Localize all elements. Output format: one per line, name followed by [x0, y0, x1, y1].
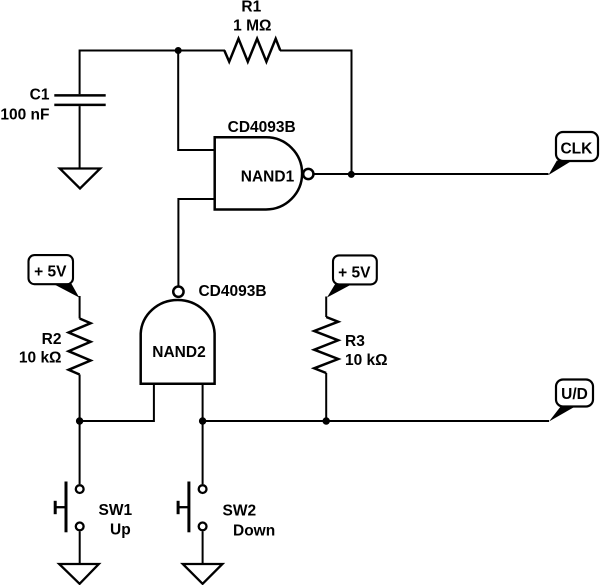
resistor R1 — [224, 39, 280, 62]
power +5V left box — [29, 255, 74, 284]
wire SW2 to ground — [202, 532, 204, 565]
switch SW1 actuator — [55, 482, 66, 533]
svg-text:CD4093B: CD4093B — [228, 119, 296, 136]
capacitor C1 plates — [54, 95, 105, 105]
wire R3 to rail — [325, 373, 327, 421]
switch SW1 contact top — [76, 485, 84, 493]
switch SW2 actuator — [178, 482, 189, 533]
svg-text:SW2: SW2 — [223, 502, 257, 519]
svg-text:100 nF: 100 nF — [0, 107, 49, 124]
svg-text:1 MΩ: 1 MΩ — [233, 18, 271, 35]
ground below C1 — [60, 169, 100, 189]
node junction SW2 rail — [199, 417, 206, 424]
power +5V right box — [333, 255, 377, 284]
svg-text:10 kΩ: 10 kΩ — [345, 352, 388, 369]
gate body NAND2 — [141, 300, 215, 384]
capacitor C1 bottom lead — [79, 106, 81, 169]
flag U/D wedge — [549, 406, 576, 422]
svg-text:+ 5V: + 5V — [34, 264, 67, 281]
switch SW2 contact bottom — [199, 523, 207, 531]
svg-text:CLK: CLK — [560, 141, 593, 158]
svg-text:C1: C1 — [30, 87, 50, 104]
svg-text:NAND1: NAND1 — [241, 168, 295, 185]
wire NAND2 left input — [80, 384, 154, 421]
wire R1 right to corner and down — [280, 51, 352, 175]
node junction top rail — [175, 47, 182, 54]
svg-text:R1: R1 — [241, 0, 261, 16]
svg-text:SW1: SW1 — [99, 502, 133, 519]
wire bottom rail to U/D — [203, 420, 549, 422]
power +5V left wedge — [53, 284, 80, 298]
inverter bubble NAND2 output — [173, 287, 183, 297]
svg-text:10 kΩ: 10 kΩ — [19, 349, 62, 366]
svg-text:R3: R3 — [345, 333, 365, 350]
svg-text:Down: Down — [233, 523, 275, 540]
node junction output feedback — [348, 171, 355, 178]
svg-text:R2: R2 — [42, 331, 62, 348]
flag CLK wedge — [549, 161, 573, 176]
node junction R3 rail — [323, 417, 330, 424]
wire NAND1 bottom input — [178, 199, 214, 286]
wire +5V to R2 — [79, 296, 81, 319]
wire NAND1 top input — [178, 51, 215, 151]
flag U/D box — [556, 380, 593, 407]
svg-text:Up: Up — [110, 522, 131, 539]
resistor R3 — [314, 317, 338, 373]
flag CLK box — [556, 132, 598, 161]
power +5V right wedge — [327, 284, 353, 298]
svg-text:CD4093B: CD4093B — [198, 283, 266, 300]
node junction R2 rail — [76, 417, 83, 424]
ground below SW2 — [183, 564, 223, 584]
capacitor C1 top lead — [79, 50, 81, 95]
inverter bubble NAND1 output — [303, 169, 313, 179]
svg-text:NAND2: NAND2 — [152, 344, 205, 361]
wire +5V to R3 — [325, 297, 327, 318]
wire NAND1 output to CLK — [314, 173, 549, 175]
switch SW2 contact top — [199, 485, 207, 493]
svg-text:+ 5V: + 5V — [338, 264, 371, 281]
resistor R2 — [69, 319, 91, 375]
wire R2 to rail and SW1 — [79, 375, 81, 485]
wire NAND2 right input down to SW2 — [202, 384, 204, 484]
switch SW1 contact bottom — [76, 523, 84, 531]
svg-text:U/D: U/D — [561, 386, 588, 403]
gate body NAND1 — [215, 137, 302, 209]
wire top rail from C1 to R1 — [80, 50, 225, 52]
ground below SW1 — [59, 564, 99, 584]
wire SW1 to ground — [79, 532, 81, 565]
